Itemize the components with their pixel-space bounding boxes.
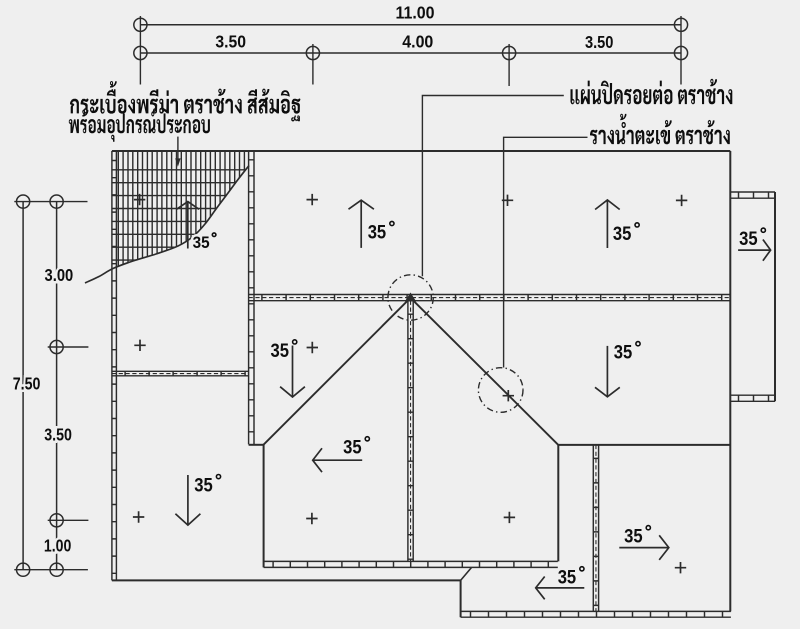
center-bottom eave with tile ticks (264, 560, 558, 562)
svg-text:1.00: 1.00 (44, 535, 72, 555)
slope arrow up top-middle plane (360, 200, 362, 248)
bottom porch eave with tile ticks (461, 610, 731, 612)
slope arrow up hatched plane (187, 202, 189, 249)
slope arrow down center-left plane (292, 346, 294, 398)
svg-text:35: 35 (368, 222, 387, 243)
svg-text:35: 35 (194, 476, 213, 497)
leader line valley-gutter label (504, 137, 588, 367)
plus mark bottom-right plane (675, 562, 686, 573)
dimension circle row2 x681 (674, 46, 687, 59)
roof right eave edge (729, 151, 731, 611)
hip connector stub (249, 444, 264, 446)
slope arrow down center-right plane (606, 346, 608, 397)
thai label: roof tile spec line 2 (69, 109, 210, 142)
step vertical at porch (460, 580, 462, 617)
svg-text:35: 35 (343, 438, 362, 459)
thai label: ridge joint cover (571, 79, 733, 105)
slope arrow up top-right plane (606, 200, 608, 248)
lower-left fascia line (112, 579, 461, 581)
dimension circle row2 x313 (306, 46, 319, 59)
left horizontal ridge (112, 370, 249, 372)
svg-text:11.00: 11.00 (396, 3, 435, 23)
svg-text:35: 35 (271, 341, 290, 362)
slope arrow left center-bottom-left plane (313, 459, 363, 461)
svg-text:3.00: 3.00 (45, 265, 74, 285)
slope arrow right bottom-right plane (619, 547, 669, 549)
plus mark center-bottom-left plane (306, 513, 317, 524)
plus mark center-bottom-right plane (504, 512, 515, 523)
ridge junction solid point (405, 293, 416, 302)
dimension line 7.50 overall left (22, 202, 24, 570)
bump-out top edge with tile ticks (730, 191, 775, 193)
leader line tile label (177, 137, 179, 160)
svg-text:3.50: 3.50 (215, 32, 246, 52)
dimension extension stubs top (140, 16, 681, 86)
plus mark left-middle plane (134, 340, 145, 351)
main horizontal ridge (249, 294, 731, 296)
valley diagonal right (411, 298, 559, 445)
plus mark hatched plane (134, 194, 145, 205)
divider between bottom-left planes (263, 445, 265, 568)
dimension line left segments 3.00/3.50/1.00 (56, 202, 58, 570)
plus mark top-middle plane (307, 194, 318, 205)
bottom-right plane left upper edge (557, 445, 559, 562)
central vertical ridge (407, 301, 409, 562)
thai label: roof tile spec line 1 (70, 81, 300, 121)
svg-text:35: 35 (613, 224, 632, 245)
hip diagonal left (263, 298, 410, 445)
svg-text:35: 35 (624, 527, 643, 548)
svg-text:3.50: 3.50 (585, 32, 614, 52)
dimension circle left inner mid (50, 340, 63, 353)
slope arrow down bottom-left plane (187, 475, 189, 525)
dimension circle row2 x140 (134, 46, 147, 59)
bottom-right vertical ridge (592, 445, 594, 612)
dimension circle left inner low (50, 514, 63, 527)
hatch break curve (85, 166, 249, 284)
junction detail circle (dash-dot) (388, 275, 433, 320)
svg-text:35: 35 (614, 343, 633, 364)
bottom-right plane top edge (558, 444, 730, 446)
right bump-out right edge (774, 192, 776, 401)
svg-text:35: 35 (558, 568, 577, 589)
plus mark top-right plane (676, 195, 687, 206)
dimension line 11.00 overall top (140, 24, 681, 26)
valley detail circle (dash-dot) (478, 368, 523, 413)
leader line ridge-cover label (422, 96, 563, 277)
plus mark bottom-left plane (133, 511, 144, 522)
tile hatch pattern top-left plane (112, 151, 249, 290)
dimension circle top-right outer (674, 18, 687, 31)
bump-out bottom edge with tile ticks (730, 394, 775, 396)
leader arrowhead tile label (175, 158, 180, 166)
plus mark top leader crossing (502, 195, 513, 206)
thai label: valley gutter (590, 114, 730, 145)
roof top eave edge (112, 150, 730, 152)
plus mark valley circle center (503, 390, 514, 401)
dimension extension stubs left (14, 202, 88, 570)
svg-text:35: 35 (193, 234, 210, 252)
svg-text:35: 35 (739, 229, 758, 250)
slope arrow right bump-out (738, 249, 771, 251)
slope arrow left bottom-middle strip (536, 587, 585, 589)
dimension circle left inner bottom (50, 563, 63, 576)
plus mark center-left plane (307, 342, 318, 353)
step diagonal eave return (461, 567, 472, 580)
left gable edge with tile ticks (111, 151, 113, 580)
dimension circle left outer top (17, 195, 30, 208)
left column right edge with tile ticks (248, 151, 250, 444)
dimension circle top-left outer (134, 18, 147, 31)
svg-text:3.50: 3.50 (44, 424, 72, 444)
dimension circle left inner top (50, 195, 63, 208)
dimension line top segments 3.50/4.00/3.50 (140, 52, 681, 54)
svg-text:4.00: 4.00 (402, 32, 433, 52)
dimension circle left outer bottom (17, 563, 30, 576)
svg-text:7.50: 7.50 (13, 373, 41, 393)
dimension circle row2 x509 (503, 46, 516, 59)
